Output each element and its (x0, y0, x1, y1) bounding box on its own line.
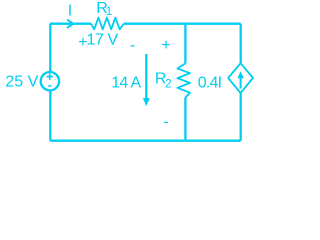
svg-text:-: - (130, 37, 135, 54)
svg-text:I: I (68, 3, 72, 20)
svg-text:14 A: 14 A (111, 75, 141, 92)
dependent source arrow (237, 71, 243, 88)
wire bottom (50, 140, 240, 142)
svg-text:17 V: 17 V (87, 32, 119, 49)
current 14 A arrow line (145, 54, 147, 100)
wire right (diamond to bottom-right corner) (240, 93, 242, 141)
wire left (source down to bottom-left corner) (49, 90, 51, 140)
dependent current source 0.4I diamond (228, 63, 253, 93)
wire top (R1 to top-right corner) (124, 23, 241, 25)
wire left (top-left corner down to source) (49, 24, 51, 72)
svg-text:25 V: 25 V (5, 73, 38, 90)
wire middle branch (R2 down to bottom wire) (184, 98, 186, 141)
resistor R2 (177, 63, 190, 97)
svg-text:0.4I: 0.4I (198, 75, 222, 92)
current 14 A arrowhead (143, 98, 150, 106)
resistor R1 (91, 18, 124, 30)
wire right (top-right corner down to diamond) (240, 24, 242, 63)
svg-text:R1: R1 (96, 0, 112, 18)
wire top (left segment to R1) (50, 23, 91, 25)
svg-text:+: + (161, 37, 170, 54)
current I arrow on top wire (67, 20, 74, 28)
svg-text:-: - (163, 114, 168, 131)
voltage source minus mark (48, 85, 51, 87)
svg-text:R2: R2 (155, 71, 172, 91)
wire middle branch (top wire down to R2) (184, 24, 186, 64)
voltage source plus mark (47, 73, 54, 80)
voltage source V1 circle (41, 72, 59, 90)
